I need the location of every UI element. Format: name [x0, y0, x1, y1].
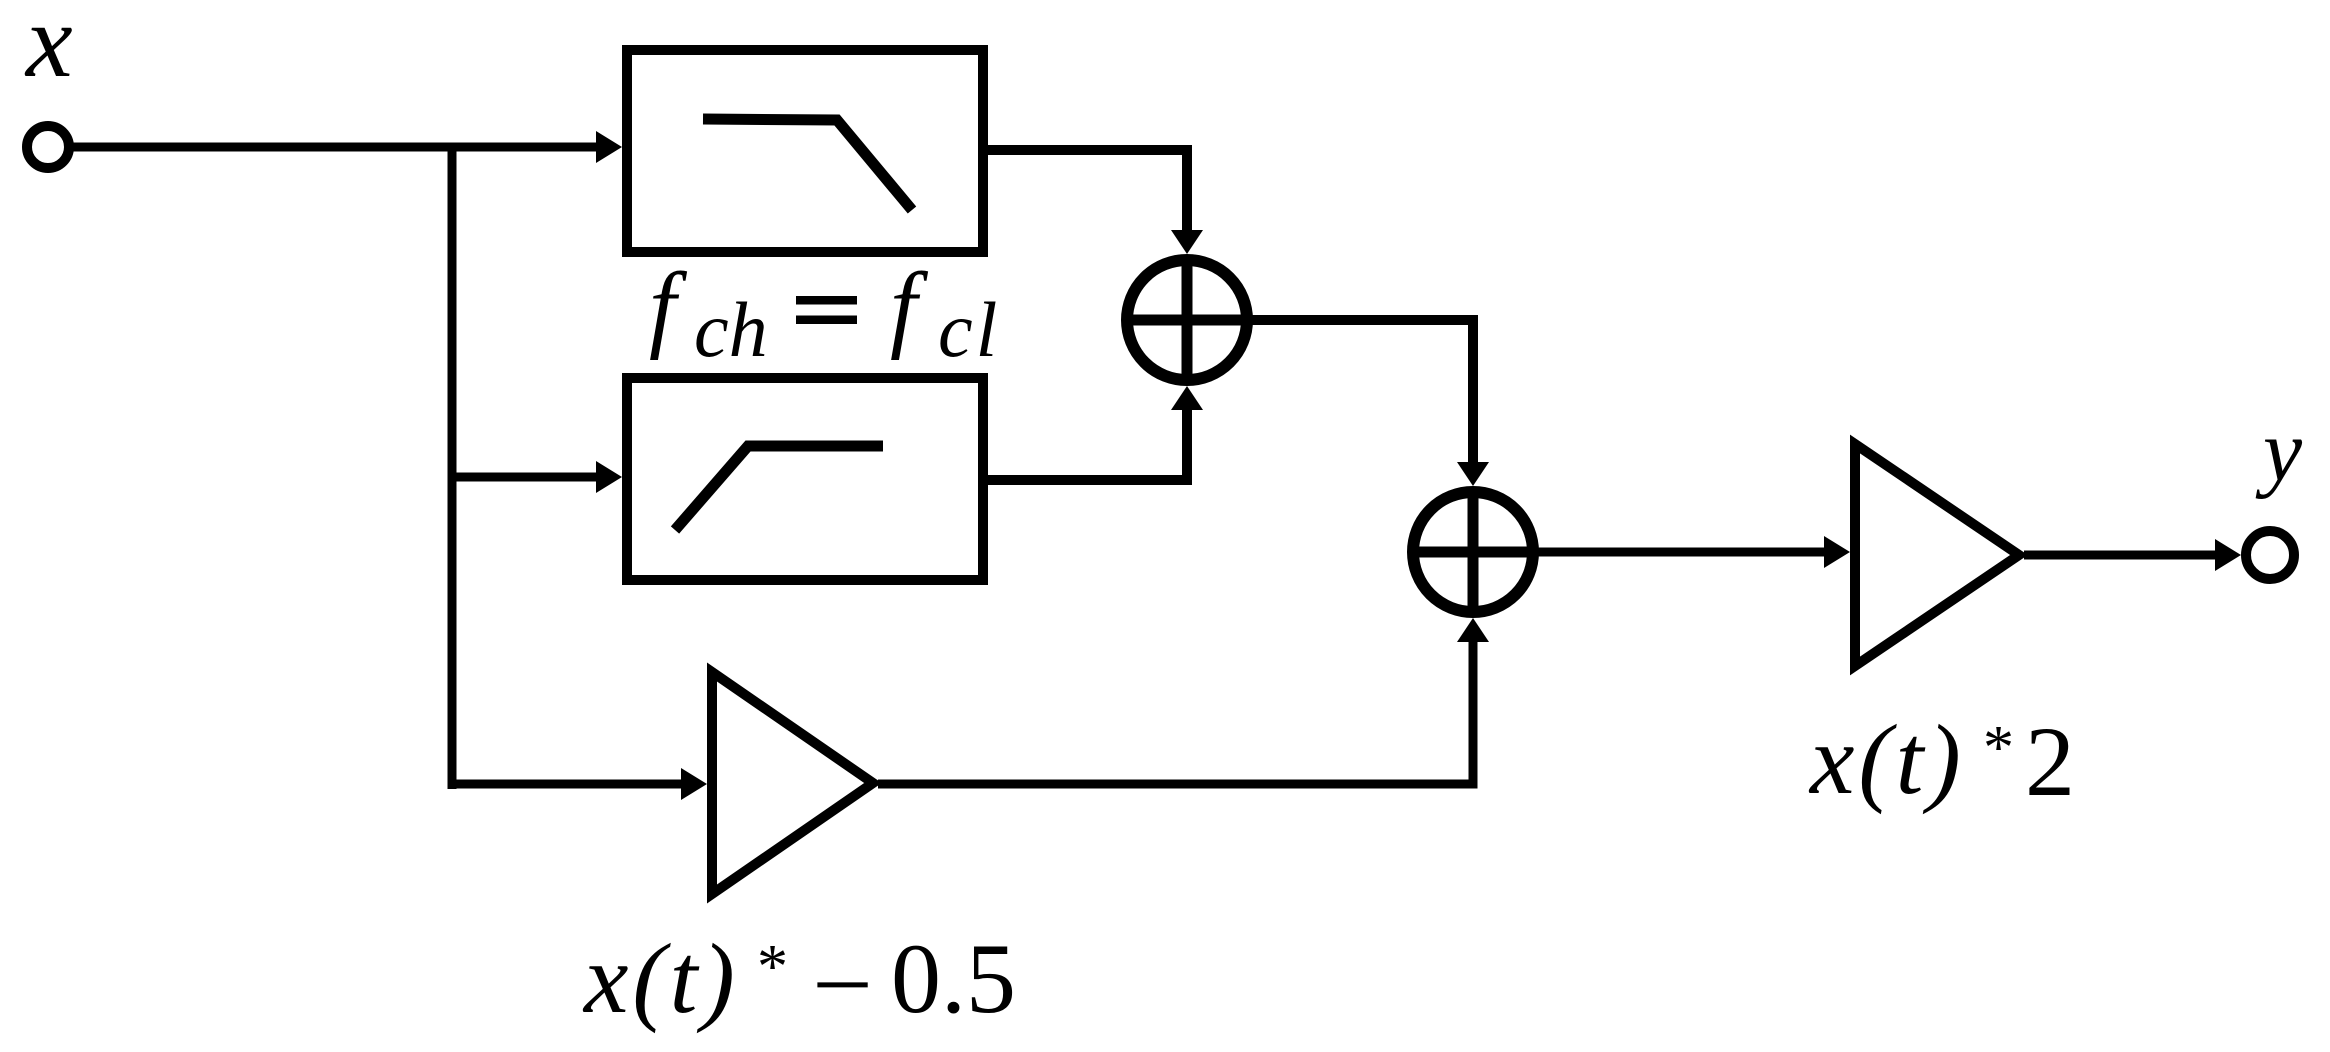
- wire amplifier A1 to summer S2: [878, 618, 1489, 784]
- amplifier A2: [1855, 444, 2019, 666]
- wire amplifier A2 to terminal y with arrowhead: [2024, 539, 2241, 571]
- wire into HPF with arrowhead: [452, 461, 622, 493]
- high-pass filter block: [627, 378, 983, 580]
- summer S2: [1409, 488, 1537, 616]
- label x(t)* - 0.5: [582, 923, 1016, 1040]
- wire into LPF with arrowhead: [452, 131, 622, 163]
- wire branch to amplifier A1 with arrowhead: [452, 768, 707, 800]
- node x label: [24, 0, 73, 99]
- wire x to branch node: [69, 143, 452, 152]
- summer S1: [1123, 256, 1251, 384]
- svg-text:x(t)*2: x(t)*2: [1808, 704, 2075, 817]
- terminal y: [2246, 531, 2294, 579]
- label x(t)*2: [1808, 704, 2075, 817]
- low-pass filter block: [627, 50, 983, 252]
- label f_ch = f_cl: [649, 253, 1000, 373]
- node y label: [2255, 403, 2303, 500]
- amplifier A1: [712, 672, 873, 894]
- svg-text:y: y: [2255, 403, 2303, 500]
- wire summer S1 to summer S2: [1247, 320, 1489, 486]
- terminal x: [27, 126, 69, 168]
- wire summer S2 to amplifier A2 with arrowhead: [1533, 536, 1850, 568]
- wire branch vertical: [448, 143, 457, 789]
- svg-text:x: x: [24, 0, 73, 99]
- wire HPF output to summer S1: [983, 386, 1203, 480]
- wire LPF output to summer S1: [983, 150, 1203, 254]
